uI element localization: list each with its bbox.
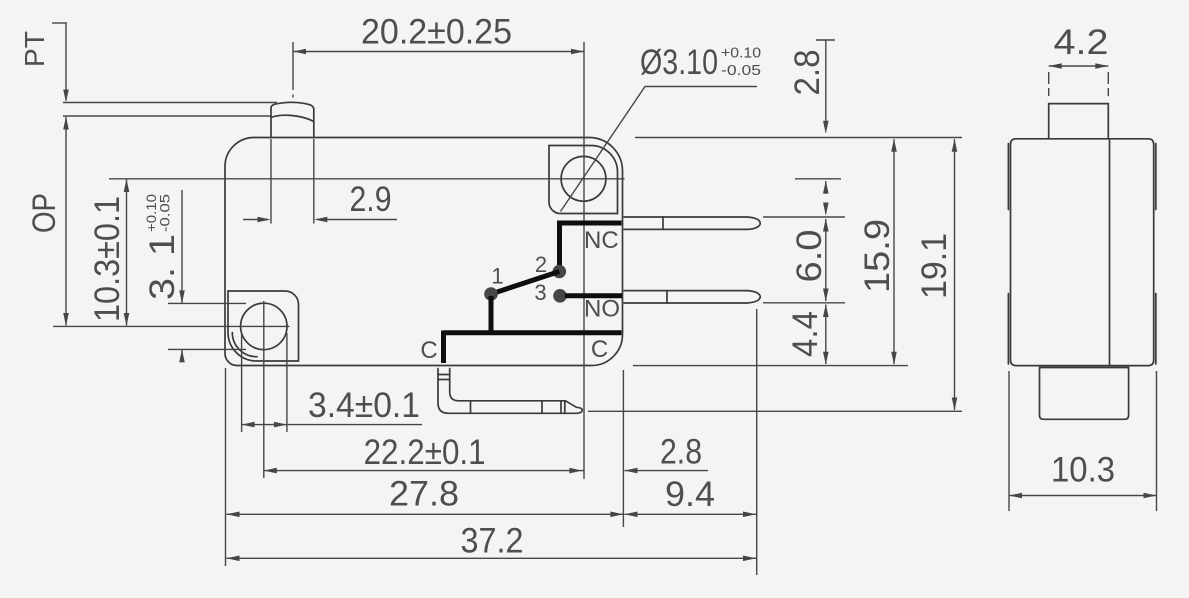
- dimension 10.3 side view: [1008, 371, 1010, 511]
- svg-text:22.2±0.1: 22.2±0.1: [364, 433, 486, 472]
- terminal NC prong notch: [662, 217, 664, 229]
- side view rib right upper: [1155, 144, 1157, 210]
- dimension 19.1 column: [952, 139, 958, 152]
- dimension 2.9: [270, 139, 272, 224]
- wire common drop from node 1: [489, 296, 494, 332]
- side view plunger: [1049, 104, 1109, 139]
- dimension 4.2 side view: [1049, 65, 1109, 67]
- svg-text:2.9: 2.9: [350, 180, 392, 219]
- dimension 9.4: [625, 513, 757, 515]
- dimension 10.3 column: [124, 179, 130, 192]
- svg-text:2: 2: [535, 252, 547, 277]
- body right edge extension down: [622, 370, 624, 527]
- svg-text:4.4: 4.4: [786, 311, 825, 357]
- dimension 20.2 line: [293, 51, 584, 53]
- side view body: [1011, 139, 1154, 366]
- operating position line: [63, 115, 271, 117]
- mounting hole boss top: [549, 146, 618, 214]
- dimension OP column: [63, 117, 69, 130]
- svg-text:10.3: 10.3: [1051, 451, 1115, 490]
- wire NC thick: [560, 223, 622, 267]
- prong tip extension down: [756, 309, 758, 575]
- svg-text:NC: NC: [584, 227, 619, 254]
- svg-text:15.9: 15.9: [858, 219, 897, 293]
- wire common left drop: [441, 331, 446, 364]
- wire common bar: [444, 330, 622, 335]
- dimension 2.8 top column: [816, 39, 835, 41]
- hole bottom centerline vertical: [263, 301, 265, 478]
- svg-text:2.8: 2.8: [788, 50, 827, 96]
- label diameter 3.10 leader: [561, 87, 758, 212]
- svg-text:3: 3: [534, 280, 546, 305]
- free position line: [63, 102, 277, 104]
- dimension 3.1 column: [181, 190, 183, 303]
- body top extension line right: [635, 137, 962, 139]
- side view rib left lower: [1007, 294, 1009, 365]
- NO prong bottom extension: [763, 302, 845, 304]
- terminal C pin notches: [470, 401, 472, 414]
- svg-text:19.1: 19.1: [915, 233, 954, 299]
- svg-text:C: C: [591, 336, 608, 363]
- hole bottom centerline horizontal: [53, 325, 290, 327]
- plunger button: [271, 102, 314, 137]
- mounting hole circle top: [561, 156, 606, 201]
- NC prong top extension: [763, 216, 845, 218]
- svg-text:+0.10: +0.10: [721, 46, 761, 62]
- dimension 4.4 column: [823, 304, 829, 317]
- hole center extension right: [795, 178, 841, 180]
- wire NO thick: [565, 293, 622, 298]
- dimension 27.8: [227, 513, 624, 515]
- svg-text:3. 1: 3. 1: [143, 234, 182, 300]
- node 2: [553, 265, 567, 279]
- side view rib left upper: [1007, 144, 1009, 210]
- dimension 15.9 column: [891, 139, 897, 152]
- node 3: [553, 289, 567, 303]
- node 1: [484, 287, 498, 301]
- hole bottom lower tangent line: [168, 348, 246, 350]
- hole top centerline vertical: [583, 42, 585, 479]
- dimension 2.8 bottom: [625, 468, 638, 474]
- body bottom extension right: [633, 365, 908, 367]
- svg-text:3.4±0.1: 3.4±0.1: [308, 386, 420, 425]
- hole top centerline horizontal: [109, 178, 625, 180]
- pin bottom extension right: [588, 410, 962, 412]
- terminal NO prong notch: [666, 291, 668, 303]
- svg-text:20.2±0.25: 20.2±0.25: [361, 13, 512, 52]
- side view parting line: [1109, 139, 1111, 365]
- svg-text:NO: NO: [584, 296, 620, 323]
- svg-text:37.2: 37.2: [461, 522, 524, 561]
- body outline left view: [225, 138, 623, 366]
- terminal C bottom pin: [438, 369, 582, 414]
- svg-text:10.3±0.1: 10.3±0.1: [88, 196, 127, 322]
- svg-text:C: C: [420, 337, 437, 364]
- svg-text:Ø3.10: Ø3.10: [640, 43, 718, 82]
- switch lever wire 1-2: [491, 272, 559, 295]
- dimension PT column: [52, 22, 67, 24]
- svg-text:4.2: 4.2: [1054, 23, 1109, 62]
- terminal NC prong: [624, 217, 760, 229]
- dimension 3.4: [241, 333, 243, 432]
- svg-text:1: 1: [491, 264, 503, 289]
- svg-text:-0.05: -0.05: [158, 194, 173, 232]
- side view rib right lower: [1155, 294, 1157, 365]
- dimension 37.2: [227, 557, 757, 559]
- svg-text:-0.05: -0.05: [721, 63, 761, 79]
- side view bottom flange: [1040, 368, 1129, 420]
- plunger dome OP arc: [271, 115, 314, 121]
- dimension 6.0 column: [823, 219, 829, 232]
- mounting hole boss bottom: [228, 291, 299, 361]
- body left edge extension down: [225, 368, 227, 566]
- hole bottom top tangent line: [168, 302, 246, 304]
- svg-text:2.8: 2.8: [660, 433, 702, 472]
- plunger centerline: [292, 42, 294, 90]
- svg-text:PT: PT: [19, 31, 50, 67]
- svg-text:9.4: 9.4: [665, 475, 715, 514]
- mounting hole bottom inner arc: [232, 333, 257, 357]
- terminal C pin collar: [438, 374, 450, 376]
- terminal NO prong: [624, 291, 760, 303]
- mounting hole circle bottom: [241, 303, 287, 349]
- svg-text:6.0: 6.0: [790, 230, 829, 283]
- svg-text:OP: OP: [26, 193, 62, 233]
- dimension 22.2: [264, 470, 584, 472]
- svg-text:27.8: 27.8: [389, 475, 459, 514]
